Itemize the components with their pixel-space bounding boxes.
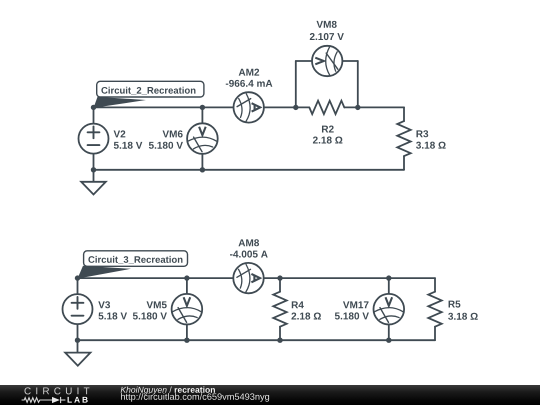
wire R3 top lead — [403, 107, 405, 121]
value label V3 value — [99, 312, 128, 319]
junction at V2 top — [91, 105, 96, 110]
value label R3 name — [416, 130, 428, 137]
junction at VM6 top — [200, 105, 205, 110]
resistor R5 zigzag — [428, 292, 441, 327]
wire R5 top lead — [434, 278, 436, 292]
value label VM8 value — [310, 33, 344, 40]
value label R4 name — [292, 301, 304, 308]
value label V2 name — [114, 130, 126, 137]
voltmeter VM5 — [172, 294, 203, 325]
ground symbol of Circuit_3 — [65, 340, 90, 366]
junction at VM17 bottom — [386, 338, 391, 343]
CircuitLab logo wordmark — [0, 385, 110, 405]
junction at VM17 top — [386, 275, 391, 280]
value label VM6 value — [149, 142, 183, 149]
footer bar — [0, 385, 540, 405]
wire top rail of Circuit_2 right of R2 — [344, 106, 404, 108]
voltmeter VM17 — [374, 294, 405, 325]
wire bottom rail of Circuit_2 (ground net) — [94, 169, 405, 171]
label Circuit_3_Recreation box — [84, 251, 188, 266]
wire R4 bottom lead — [279, 327, 281, 341]
resistor R4 zigzag — [273, 292, 286, 327]
value label R2 name — [322, 126, 334, 133]
wire R5 bottom lead — [434, 327, 436, 341]
label Circuit_2_Recreation text — [101, 87, 195, 95]
junction at R4 top — [277, 275, 282, 280]
wire VM5 branch vertical — [186, 278, 188, 340]
value label AM8 name — [238, 239, 259, 246]
value label R5 value — [448, 313, 478, 320]
wire VM6 branch vertical — [201, 107, 203, 169]
voltmeter VM8 — [312, 46, 342, 76]
value label VM17 name — [343, 301, 369, 308]
label Circuit_3_Recreation text — [88, 256, 182, 264]
ground symbol of Circuit_2 — [81, 170, 106, 195]
value label V3 name — [98, 301, 110, 308]
resistor R2 zigzag — [309, 101, 344, 114]
junction at VM6 bottom — [200, 167, 205, 172]
value label R2 value — [313, 137, 343, 144]
junction at V3 bottom — [75, 338, 80, 343]
voltage source V2 — [79, 124, 109, 154]
voltage source V3 — [63, 294, 93, 324]
wire VM8 right stub — [357, 61, 359, 107]
wire VM17 branch vertical — [388, 278, 390, 340]
label Circuit_2_Recreation box — [97, 81, 204, 97]
label Circuit_2_Recreation leader — [94, 97, 147, 108]
junction at VM5 top — [184, 275, 189, 280]
wire VM8 left stub — [295, 61, 297, 107]
junction at R2 left node — [293, 105, 298, 110]
junction at V3 top — [75, 275, 80, 280]
value label VM17 value — [335, 312, 369, 319]
junction at V2 bottom — [91, 167, 96, 172]
value label R5 name — [449, 301, 461, 308]
value label AM2 value — [226, 80, 273, 87]
resistor R3 zigzag — [397, 121, 410, 156]
junction at VM5 bottom — [184, 338, 189, 343]
logo resistor squiggle and diode — [22, 397, 66, 403]
junction at R2 right node — [355, 105, 360, 110]
footer author line — [0, 385, 540, 405]
wire top rail of Circuit_3 — [78, 277, 436, 279]
value label VM6 name — [163, 130, 183, 137]
wire top rail of Circuit_2 (node A) left of R2 — [94, 106, 310, 108]
label Circuit_3_Recreation leader — [78, 266, 132, 279]
wire V3 branch vertical — [77, 278, 79, 340]
wire bottom rail of Circuit_3 (ground net) — [78, 339, 436, 341]
value label VM5 name — [147, 301, 167, 308]
wire VM8 top right segment — [327, 60, 358, 62]
value label VM8 name — [316, 21, 336, 28]
value label AM2 name — [239, 69, 259, 76]
wire R4 top lead — [279, 278, 281, 292]
wire V2 branch vertical — [93, 107, 95, 169]
wire R3 bottom lead — [403, 156, 405, 170]
value label VM5 value — [133, 312, 167, 319]
value label R3 value — [416, 142, 446, 149]
ammeter AM8 — [233, 263, 263, 293]
value label V2 value — [114, 142, 143, 149]
value label AM8 value — [230, 251, 268, 258]
ammeter AM2 — [234, 92, 264, 122]
junction at R4 bottom — [277, 338, 282, 343]
value label R4 value — [291, 313, 321, 320]
voltmeter VM6 — [187, 123, 218, 154]
wire VM8 top left segment — [296, 60, 327, 62]
footer url line — [121, 393, 269, 402]
